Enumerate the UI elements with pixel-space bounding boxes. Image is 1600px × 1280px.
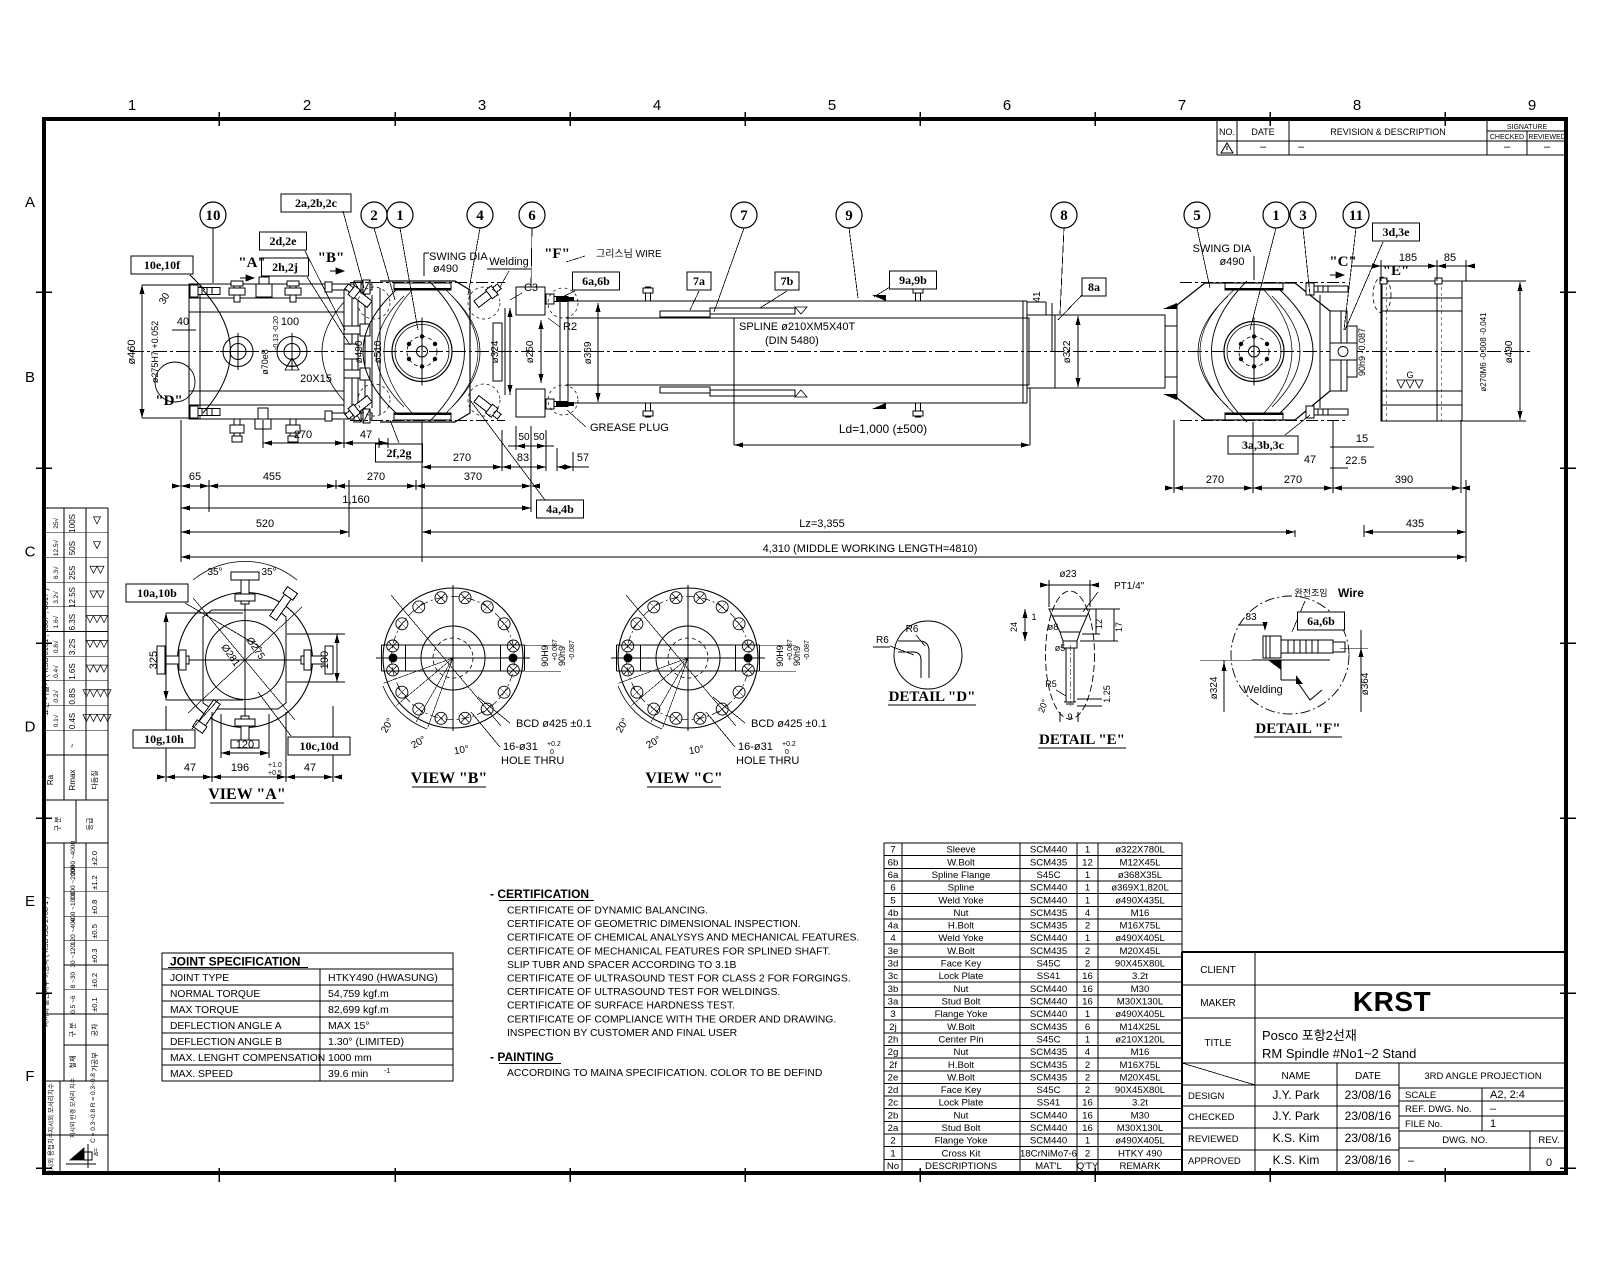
svg-text:22.5: 22.5 (1345, 455, 1366, 467)
svg-text:47: 47 (304, 762, 316, 774)
svg-text:2h,2j: 2h,2j (272, 260, 298, 274)
svg-text:16: 16 (1082, 997, 1093, 1008)
svg-text:M20X45L: M20X45L (1119, 946, 1161, 957)
svg-text:CERTIFICATE OF MECHANICAL F: CERTIFICATE OF MECHANICAL FEATURES FOR S… (507, 946, 831, 957)
svg-text:1,160: 1,160 (342, 494, 370, 506)
svg-text:R5: R5 (1045, 679, 1057, 689)
svg-text:지시외 모서리치수: 지시외 모서리치수 (46, 1083, 55, 1133)
svg-text:270: 270 (367, 471, 385, 483)
svg-text:6.3S: 6.3S (68, 614, 77, 630)
svg-text:B: B (25, 369, 35, 386)
svg-text:ø23: ø23 (1059, 569, 1077, 580)
svg-text:325: 325 (148, 651, 160, 669)
svg-text:"B": "B" (318, 250, 345, 266)
svg-text:- PAINTING: - PAINTING (490, 1050, 554, 1064)
svg-text:12.5√: 12.5√ (52, 540, 60, 557)
svg-text:Nut: Nut (954, 1047, 969, 1058)
svg-text:270: 270 (453, 452, 471, 464)
svg-text:"A": "A" (238, 255, 266, 271)
svg-text:185: 185 (1399, 252, 1417, 264)
svg-text:3: 3 (890, 1009, 895, 1020)
svg-text:Weld Yoke: Weld Yoke (938, 933, 983, 944)
svg-text:6: 6 (1003, 97, 1011, 114)
svg-text:F: F (25, 1068, 34, 1085)
svg-text:M30: M30 (1131, 984, 1150, 995)
svg-text:철재: 철재 (68, 1056, 77, 1069)
svg-text:4,310 (MIDDLE WORKING LENGTH=: 4,310 (MIDDLE WORKING LENGTH=4810) (763, 543, 978, 555)
svg-text:Sleeve: Sleeve (946, 845, 975, 856)
svg-text:120 ~400: 120 ~400 (70, 917, 77, 945)
svg-text:H.Bolt: H.Bolt (948, 921, 974, 932)
svg-text:1: 1 (1272, 208, 1280, 224)
svg-text:35°: 35° (261, 567, 276, 578)
svg-text:SCM440: SCM440 (1030, 984, 1067, 995)
svg-text:ø275H7 +0.052: ø275H7 +0.052 (150, 321, 160, 383)
svg-text:82,699 kgf.m: 82,699 kgf.m (328, 1004, 389, 1016)
svg-text:12: 12 (1094, 619, 1104, 629)
svg-text:4a: 4a (888, 921, 899, 932)
svg-text:ø490X435L: ø490X435L (1115, 895, 1165, 906)
svg-text:7: 7 (740, 208, 748, 224)
svg-text:16-ø31: 16-ø31 (503, 741, 538, 753)
svg-text:ø322: ø322 (1062, 340, 1073, 363)
svg-text:10g,10h: 10g,10h (144, 732, 184, 746)
svg-text:M16X75L: M16X75L (1119, 921, 1161, 932)
svg-text:REMARK: REMARK (1119, 1161, 1161, 1172)
svg-text:DEFLECTION ANGLE A: DEFLECTION ANGLE A (170, 1021, 282, 1032)
svg-text:370: 370 (464, 471, 482, 483)
svg-text:NO.: NO. (1219, 127, 1235, 137)
svg-text:50: 50 (533, 432, 545, 443)
svg-text:CERTIFICATE OF ULTRASOUND T: CERTIFICATE OF ULTRASOUND TEST FOR WELDI… (507, 987, 780, 998)
svg-text:A: A (25, 194, 35, 211)
svg-text:SCM440: SCM440 (1030, 1009, 1067, 1020)
svg-text:ø324: ø324 (1209, 676, 1220, 699)
svg-text:±2.0: ±2.0 (90, 851, 99, 866)
svg-text:M20X45L: M20X45L (1119, 1072, 1161, 1083)
svg-text:2e: 2e (888, 1072, 899, 1083)
svg-text:ø490: ø490 (1504, 340, 1515, 363)
svg-text:ø369X1,820L: ø369X1,820L (1111, 883, 1169, 894)
svg-text:4: 4 (1085, 908, 1091, 919)
svg-text:REF. DWG. No.: REF. DWG. No. (1405, 1104, 1472, 1115)
svg-text:Nut: Nut (954, 984, 969, 995)
svg-text:8 ~30: 8 ~30 (70, 972, 77, 989)
svg-text:1: 1 (1085, 895, 1090, 906)
svg-text:Spline: Spline (948, 883, 975, 894)
svg-text:1.6√: 1.6√ (52, 615, 60, 628)
svg-text:JOINT SPECIFICATION: JOINT SPECIFICATION (170, 955, 300, 969)
svg-text:-0.087: -0.087 (804, 640, 811, 660)
svg-text:A2, 2:4: A2, 2:4 (1490, 1089, 1525, 1101)
svg-text:SCM435: SCM435 (1030, 908, 1067, 919)
svg-text:455: 455 (263, 471, 281, 483)
svg-text:0.8√: 0.8√ (52, 640, 60, 653)
svg-text:M16X75L: M16X75L (1119, 1060, 1161, 1071)
svg-text:90H9: 90H9 (540, 645, 550, 667)
svg-text:NORMAL TORQUE: NORMAL TORQUE (170, 989, 260, 1000)
svg-text:REVISION & DESCRIPTION: REVISION & DESCRIPTION (1330, 127, 1446, 137)
svg-text:Weld Yoke: Weld Yoke (938, 895, 983, 906)
svg-text:1.25: 1.25 (1102, 685, 1112, 703)
svg-text:1: 1 (1085, 870, 1090, 881)
svg-text:S45C: S45C (1037, 1034, 1061, 1045)
svg-text:SCM440: SCM440 (1030, 883, 1067, 894)
svg-text:H.Bolt: H.Bolt (948, 1060, 974, 1071)
svg-text:-0.13 -0.20: -0.13 -0.20 (273, 316, 280, 350)
svg-text:완전조임: 완전조임 (1294, 587, 1327, 598)
svg-text:190: 190 (319, 651, 331, 669)
svg-text:M16: M16 (1131, 1047, 1150, 1058)
svg-text:4: 4 (653, 97, 661, 114)
svg-text:Q'TY: Q'TY (1077, 1161, 1099, 1172)
svg-text:S45C: S45C (1037, 959, 1061, 970)
svg-text:R6: R6 (906, 624, 919, 635)
svg-text:2: 2 (890, 1136, 895, 1147)
svg-text:2f: 2f (889, 1060, 897, 1071)
svg-text:가공부: 가공부 (90, 1052, 99, 1072)
svg-text:47: 47 (360, 429, 372, 441)
svg-text:3.2√: 3.2√ (52, 591, 60, 604)
svg-text:6: 6 (890, 883, 895, 894)
svg-text:ø490X405L: ø490X405L (1115, 1009, 1165, 1020)
svg-text:ø490X405L: ø490X405L (1115, 933, 1165, 944)
svg-text:APPROVED: APPROVED (1188, 1156, 1241, 1167)
svg-text:5: 5 (828, 97, 836, 114)
svg-text:CHECKED: CHECKED (1188, 1112, 1235, 1123)
svg-text:등급: 등급 (86, 817, 94, 830)
svg-text:520: 520 (256, 518, 274, 530)
svg-text:90h9 -0.087: 90h9 -0.087 (1357, 328, 1367, 376)
svg-text:15: 15 (1356, 433, 1368, 445)
svg-text:GREASE PLUG: GREASE PLUG (590, 422, 669, 434)
svg-text:"E": "E" (1383, 263, 1410, 279)
svg-text:85: 85 (1444, 252, 1456, 264)
svg-text:435: 435 (1406, 518, 1424, 530)
svg-text:SCM435: SCM435 (1030, 921, 1067, 932)
svg-text:W.Bolt: W.Bolt (947, 1072, 975, 1083)
svg-text:Stud Bolt: Stud Bolt (942, 1123, 981, 1134)
svg-text:ø490: ø490 (433, 263, 458, 275)
svg-text:4: 4 (1085, 1047, 1091, 1058)
svg-text:Nut: Nut (954, 1110, 969, 1121)
svg-text:Lock Plate: Lock Plate (939, 971, 984, 982)
svg-text:9: 9 (1067, 712, 1072, 722)
svg-text:0.5 ~6: 0.5 ~6 (70, 995, 77, 1014)
svg-text:23/08/16: 23/08/16 (1345, 1131, 1392, 1145)
svg-text:SCM440: SCM440 (1030, 1110, 1067, 1121)
svg-text:M12X45L: M12X45L (1119, 857, 1161, 868)
svg-text:90h9: 90h9 (557, 646, 567, 666)
svg-text:270: 270 (1284, 474, 1302, 486)
svg-text:7b: 7b (781, 274, 794, 288)
svg-text:2: 2 (1085, 921, 1090, 932)
svg-text:+1.0: +1.0 (268, 762, 282, 769)
svg-text:SCM440: SCM440 (1030, 933, 1067, 944)
svg-text:W.Bolt: W.Bolt (947, 1022, 975, 1033)
svg-text:11: 11 (1349, 208, 1363, 224)
svg-text:ø70e8: ø70e8 (260, 349, 270, 375)
svg-text:16: 16 (1082, 1110, 1093, 1121)
svg-text:2: 2 (1085, 1085, 1090, 1096)
svg-text:SWING DIA: SWING DIA (429, 251, 488, 263)
svg-text:3: 3 (1299, 208, 1307, 224)
svg-text:INSPECTION BY CUSTOMER AND: INSPECTION BY CUSTOMER AND FINAL USER (507, 1028, 738, 1039)
svg-text:VIEW "A": VIEW "A" (208, 786, 285, 803)
svg-text:1000 mm: 1000 mm (328, 1052, 372, 1064)
svg-text:Ra: Ra (46, 774, 55, 785)
svg-text:7a: 7a (693, 274, 705, 288)
svg-text:CLIENT: CLIENT (1200, 965, 1236, 976)
svg-text:M14X25L: M14X25L (1119, 1022, 1161, 1033)
svg-text:Posco 포항2선재: Posco 포항2선재 (1262, 1028, 1357, 1043)
svg-text:ø364: ø364 (1360, 672, 1371, 695)
svg-text:G: G (1406, 370, 1413, 380)
svg-text:VIEW "B": VIEW "B" (411, 770, 488, 787)
svg-text:3.2t: 3.2t (1132, 1098, 1148, 1109)
svg-text:ø460: ø460 (126, 339, 138, 364)
svg-text:S45C: S45C (1037, 870, 1061, 881)
svg-text:100: 100 (281, 316, 299, 328)
svg-text:ø8: ø8 (1048, 622, 1059, 632)
svg-text:HTKY490 (HWASUNG): HTKY490 (HWASUNG) (328, 972, 438, 984)
svg-text:0.1√: 0.1√ (52, 714, 60, 727)
svg-text:SCM440: SCM440 (1030, 845, 1067, 856)
svg-text:2: 2 (303, 97, 311, 114)
svg-text:0.8S: 0.8S (68, 688, 77, 704)
svg-text:23/08/16: 23/08/16 (1345, 1153, 1392, 1167)
svg-text:1: 1 (128, 97, 136, 114)
svg-text:CERTIFICATE OF COMPLIANCE W: CERTIFICATE OF COMPLIANCE WITH THE ORDER… (507, 1014, 836, 1025)
svg-text:6a: 6a (888, 870, 899, 881)
svg-text:JOINT TYPE: JOINT TYPE (170, 973, 229, 984)
svg-text:HOLE THRU: HOLE THRU (736, 755, 799, 767)
svg-text:50: 50 (518, 432, 530, 443)
svg-text:2: 2 (1085, 946, 1090, 957)
svg-text:24: 24 (1009, 622, 1019, 632)
svg-text:ø510: ø510 (373, 340, 384, 363)
svg-text:3d: 3d (888, 959, 899, 970)
svg-text:MAX. SPEED: MAX. SPEED (170, 1069, 233, 1080)
svg-text:10c,10d: 10c,10d (300, 739, 339, 753)
svg-text:1.6S: 1.6S (68, 663, 77, 679)
svg-text:2g: 2g (888, 1047, 899, 1058)
svg-text:CERTIFICATE OF GEOMETRIC DI: CERTIFICATE OF GEOMETRIC DIMENSIONAL INS… (507, 919, 801, 930)
svg-text:SS41: SS41 (1037, 1098, 1060, 1109)
svg-text:–: – (1490, 1103, 1497, 1115)
svg-text:CERTIFICATE OF SURFACE HARD: CERTIFICATE OF SURFACE HARDNESS TEST. (507, 1001, 735, 1012)
svg-text:83: 83 (517, 452, 529, 464)
svg-text:270: 270 (1206, 474, 1224, 486)
svg-text:–: – (1408, 1155, 1415, 1167)
svg-text:MAT'L: MAT'L (1035, 1161, 1062, 1172)
svg-text:REV.: REV. (1538, 1135, 1559, 1146)
svg-text:Nut: Nut (954, 908, 969, 919)
svg-text:Face Key: Face Key (941, 959, 982, 970)
svg-text:CHECKED: CHECKED (1490, 134, 1524, 141)
svg-text:17: 17 (1114, 622, 1124, 632)
svg-text:4: 4 (890, 933, 896, 944)
svg-text:S45C: S45C (1037, 1085, 1061, 1096)
svg-text:1: 1 (1490, 1118, 1496, 1130)
svg-text:SCM440: SCM440 (1030, 1123, 1067, 1134)
svg-text:TITLE: TITLE (1204, 1038, 1232, 1049)
svg-text:3.2t: 3.2t (1132, 971, 1148, 982)
svg-text:25S: 25S (68, 566, 77, 580)
svg-text:Stud Bolt: Stud Bolt (942, 997, 981, 1008)
svg-text:Flange Yoke: Flange Yoke (935, 1009, 988, 1020)
svg-text:6: 6 (528, 208, 536, 224)
svg-text:1: 1 (1085, 1136, 1090, 1147)
svg-text:54,759 kgf.m: 54,759 kgf.m (328, 988, 389, 1000)
svg-text:ø369: ø369 (583, 341, 594, 364)
svg-text:Cross Kit: Cross Kit (942, 1148, 981, 1159)
svg-text:SCM440: SCM440 (1030, 895, 1067, 906)
svg-text:RM Spindle #No1~2 Stand: RM Spindle #No1~2 Stand (1262, 1046, 1416, 1061)
svg-text:±0.3: ±0.3 (90, 949, 99, 964)
svg-text:Flange Yoke: Flange Yoke (935, 1136, 988, 1147)
svg-text:C: C (25, 544, 36, 561)
svg-text:W.Bolt: W.Bolt (947, 857, 975, 868)
svg-text:DATE: DATE (1355, 1071, 1381, 1082)
svg-text:"F": "F" (544, 246, 570, 262)
svg-text:SCM435: SCM435 (1030, 946, 1067, 957)
svg-text:Rmax: Rmax (68, 770, 77, 791)
svg-text:DWG. NO.: DWG. NO. (1442, 1135, 1487, 1146)
svg-text:20X15: 20X15 (300, 373, 332, 385)
svg-text:4b: 4b (888, 908, 899, 919)
svg-text:+0.2: +0.2 (782, 741, 796, 748)
svg-text:39.6 min: 39.6 min (328, 1068, 368, 1080)
svg-text:E: E (25, 893, 35, 910)
svg-text:ACCORDING TO MAINA SPECIFIC: ACCORDING TO MAINA SPECIFICATION. COLOR … (507, 1068, 822, 1079)
svg-text:구 분: 구 분 (54, 816, 62, 831)
svg-text:1: 1 (1031, 612, 1036, 622)
svg-text:90X45X80L: 90X45X80L (1115, 1085, 1166, 1096)
svg-text:W.Bolt: W.Bolt (947, 946, 975, 957)
svg-text:DESIGN: DESIGN (1188, 1091, 1225, 1102)
svg-text:DESCRIPTIONS: DESCRIPTIONS (925, 1161, 997, 1172)
svg-text:Face Key: Face Key (941, 1085, 982, 1096)
svg-text:10e,10f: 10e,10f (144, 258, 181, 272)
svg-text:3c: 3c (888, 971, 898, 982)
svg-text:3.2S: 3.2S (68, 639, 77, 655)
svg-text:2d,2e: 2d,2e (270, 234, 298, 248)
svg-text:D: D (25, 718, 36, 735)
svg-text:공차: 공차 (90, 1023, 99, 1036)
svg-text:M16: M16 (1131, 908, 1150, 919)
svg-text:SCM435: SCM435 (1030, 857, 1067, 868)
svg-text:MAX TORQUE: MAX TORQUE (170, 1005, 239, 1016)
svg-text:12.5S: 12.5S (68, 587, 77, 608)
svg-text:3a,3b,3c: 3a,3b,3c (1242, 438, 1285, 452)
svg-text:4: 4 (476, 208, 484, 224)
svg-text:–: – (1260, 141, 1267, 153)
svg-text:SCM435: SCM435 (1030, 1047, 1067, 1058)
svg-text:1: 1 (1085, 933, 1090, 944)
svg-text:2a,2b,2c: 2a,2b,2c (295, 196, 338, 210)
svg-text:다듬질: 다듬질 (90, 770, 99, 789)
svg-text:2: 2 (1085, 1060, 1090, 1071)
svg-text:2j: 2j (889, 1022, 896, 1033)
svg-text:9: 9 (845, 208, 853, 224)
svg-text:47: 47 (184, 762, 196, 774)
svg-text:1: 1 (890, 1148, 895, 1159)
svg-text:1: 1 (1085, 883, 1090, 894)
svg-text:PT1/4": PT1/4" (1114, 581, 1145, 592)
svg-text:–: – (1504, 141, 1511, 153)
svg-text:40: 40 (177, 316, 189, 328)
svg-text:3: 3 (478, 97, 486, 114)
svg-text:- CERTIFICATION: - CERTIFICATION (490, 887, 589, 901)
svg-text:90h9: 90h9 (792, 646, 802, 666)
svg-text:KRST: KRST (1353, 986, 1431, 1017)
svg-text:3b: 3b (888, 984, 899, 995)
svg-text:35°: 35° (207, 567, 222, 578)
svg-text:±0.5: ±0.5 (90, 924, 99, 939)
svg-text:DATE: DATE (1251, 127, 1274, 137)
svg-text:2f,2g: 2f,2g (387, 446, 412, 460)
svg-text:7: 7 (1178, 97, 1186, 114)
svg-text:SCM440: SCM440 (1030, 997, 1067, 1008)
svg-text:4a,4b: 4a,4b (546, 502, 574, 516)
svg-text:Welding: Welding (489, 256, 529, 268)
svg-text:390: 390 (1395, 474, 1413, 486)
svg-text:270: 270 (294, 429, 312, 441)
svg-text:41: 41 (1032, 291, 1043, 303)
svg-text:CERTIFICATE OF ULTRASOUND T: CERTIFICATE OF ULTRASOUND TEST FOR CLASS… (507, 974, 851, 985)
svg-text:50S: 50S (68, 541, 77, 555)
svg-text:C = 0.3~0.8 R = 0.3~0.8: C = 0.3~0.8 R = 0.3~0.8 (90, 1073, 97, 1143)
svg-text:–: – (1298, 141, 1305, 153)
svg-text:M30X130L: M30X130L (1117, 997, 1164, 1008)
svg-text:-1: -1 (384, 1068, 390, 1075)
svg-text:그리스님 WIRE: 그리스님 WIRE (596, 248, 662, 260)
svg-text:ø490: ø490 (1219, 256, 1244, 268)
svg-text:±0.1: ±0.1 (90, 997, 99, 1012)
svg-text:+0.5: +0.5 (268, 770, 282, 777)
svg-text:90H9: 90H9 (775, 645, 785, 667)
svg-text:0: 0 (1546, 1157, 1552, 1169)
svg-text:±1.2: ±1.2 (90, 875, 99, 890)
svg-text:5: 5 (1193, 208, 1201, 224)
svg-text:6.3√: 6.3√ (52, 566, 60, 579)
svg-text:SCM435: SCM435 (1030, 1022, 1067, 1033)
svg-text:30 ~120: 30 ~120 (70, 944, 77, 968)
svg-text:지시외 밑반치수 허용치 ( KSB ISO 2768-1: 지시외 밑반치수 허용치 ( KSB ISO 2768-1 ) (41, 897, 50, 1028)
svg-text:+0.2: +0.2 (547, 741, 561, 748)
svg-text:FILE No.: FILE No. (1405, 1119, 1443, 1130)
svg-text:16: 16 (1082, 984, 1093, 995)
svg-text:120: 120 (236, 739, 254, 751)
svg-text:10: 10 (206, 208, 221, 224)
svg-text:Lock Plate: Lock Plate (939, 1098, 984, 1109)
svg-text:6a,6b: 6a,6b (582, 274, 610, 288)
svg-text:SCM440: SCM440 (1030, 1136, 1067, 1147)
svg-text:16: 16 (1082, 1123, 1093, 1134)
svg-text:지시외 반경 모서리 치수: 지시외 반경 모서리 치수 (69, 1077, 77, 1138)
svg-text:16-ø31: 16-ø31 (738, 741, 773, 753)
svg-text:BCD ø425 ±0.1: BCD ø425 ±0.1 (516, 718, 592, 730)
svg-text:2: 2 (1085, 959, 1090, 970)
svg-text:7: 7 (890, 845, 895, 856)
svg-text:표면 거칠기 ( KSB 0161 , 0507 , 061: 표면 거칠기 ( KSB 0161 , 0507 , 0617 ) (40, 588, 50, 716)
svg-text:SCM435: SCM435 (1030, 1060, 1067, 1071)
svg-text:K.S. Kim: K.S. Kim (1273, 1153, 1320, 1167)
svg-text:SCALE: SCALE (1405, 1090, 1436, 1101)
svg-text:10a,10b: 10a,10b (137, 586, 177, 600)
svg-text:8: 8 (1060, 208, 1068, 224)
